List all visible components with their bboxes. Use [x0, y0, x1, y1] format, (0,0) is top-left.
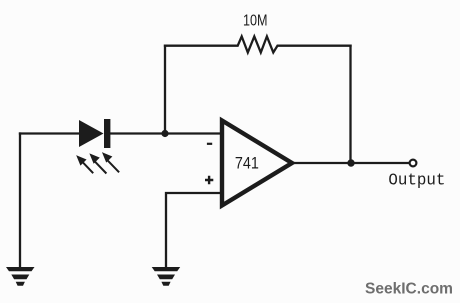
svg-text:741: 741 — [235, 154, 259, 173]
svg-text:Output: Output — [388, 170, 445, 189]
svg-text:SeekIC.com: SeekIC.com — [365, 281, 453, 298]
svg-text:10M: 10M — [243, 12, 268, 29]
